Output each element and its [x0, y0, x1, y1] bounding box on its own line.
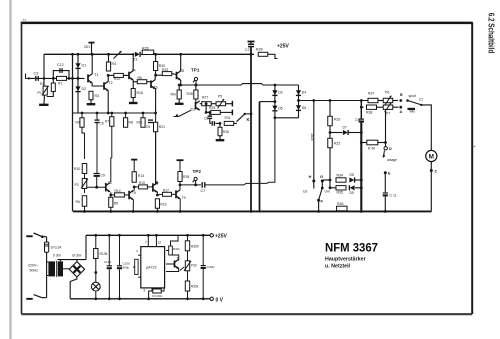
svg-text:+25V: +25V — [215, 234, 227, 240]
svg-text:D2: D2 — [82, 87, 87, 91]
svg-text:A: A — [400, 110, 403, 114]
svg-text:R12: R12 — [114, 77, 120, 81]
svg-text:D6: D6 — [302, 106, 306, 110]
svg-text:R27: R27 — [202, 96, 208, 100]
svg-text:R6: R6 — [76, 200, 80, 204]
svg-text:C1: C1 — [419, 98, 423, 102]
svg-text:Si 0,2A: Si 0,2A — [51, 246, 63, 250]
svg-text:D4: D4 — [302, 91, 306, 95]
svg-text:400µ: 400µ — [123, 266, 130, 270]
svg-text:Gl 30x: Gl 30x — [72, 254, 82, 258]
svg-text:P6: P6 — [385, 91, 389, 95]
svg-text:C12: C12 — [57, 63, 64, 67]
svg-text:C3: C3 — [34, 72, 39, 76]
svg-text:R35x: R35x — [191, 285, 199, 289]
svg-text:R26: R26 — [142, 47, 149, 51]
svg-text:R350: R350 — [191, 245, 199, 249]
svg-text:R1: R1 — [58, 82, 62, 86]
svg-text:+25V: +25V — [277, 44, 289, 50]
svg-text:0 V: 0 V — [216, 298, 224, 304]
svg-text:G: G — [320, 174, 323, 179]
svg-text:M: M — [429, 154, 434, 161]
svg-text:tr 30x: tr 30x — [53, 254, 61, 258]
svg-text:spult: spult — [409, 94, 416, 98]
svg-text:C101: C101 — [104, 260, 112, 264]
svg-text:T5: T5 — [132, 191, 136, 195]
svg-text:R34: R34 — [337, 174, 343, 178]
svg-text:C: C — [435, 170, 438, 174]
svg-text:50Hz: 50Hz — [30, 269, 39, 273]
svg-text:TP1: TP1 — [191, 68, 200, 73]
svg-text:P1: P1 — [38, 91, 42, 95]
svg-text:T10: T10 — [190, 108, 196, 112]
svg-text:D: D — [389, 147, 392, 151]
svg-text:2D1: 2D1 — [84, 45, 90, 49]
svg-text:(C36x: (C36x — [207, 265, 216, 269]
svg-text:R35: R35 — [337, 191, 343, 195]
svg-text:R4: R4 — [112, 62, 117, 66]
svg-text:C7: C7 — [201, 189, 206, 193]
svg-text:B: B — [400, 93, 403, 97]
svg-text:R10: R10 — [74, 167, 80, 171]
svg-text:D9: D9 — [350, 191, 354, 195]
svg-text:R14: R14 — [115, 189, 121, 193]
svg-text:7: 7 — [145, 241, 147, 245]
svg-text:µA723: µA723 — [146, 266, 156, 270]
svg-text:5: 5 — [144, 289, 146, 293]
svg-text:R5: R5 — [114, 202, 118, 206]
svg-text:NFM 3367: NFM 3367 — [325, 241, 378, 255]
svg-text:R13: R13 — [138, 174, 144, 178]
svg-text:R30x: R30x — [173, 247, 180, 251]
svg-text:12: 12 — [158, 241, 162, 245]
svg-text:C6: C6 — [100, 122, 104, 126]
svg-text:C9: C9 — [101, 174, 105, 178]
svg-text:D1: D1 — [82, 64, 87, 68]
svg-text:P2: P2 — [75, 183, 79, 187]
svg-text:R28: R28 — [187, 92, 193, 96]
svg-text:C8: C8 — [204, 117, 208, 121]
svg-text:R22: R22 — [334, 142, 340, 146]
svg-text:R7: R7 — [105, 120, 109, 124]
svg-text:R36: R36 — [337, 202, 343, 206]
svg-text:R17: R17 — [163, 188, 169, 192]
svg-text:220V~: 220V~ — [28, 264, 39, 268]
svg-text:R 40: R 40 — [368, 147, 375, 151]
svg-text:R6: R6 — [138, 76, 142, 80]
svg-text:R8: R8 — [129, 121, 133, 125]
svg-text:waage: waage — [387, 158, 397, 162]
svg-text:C2: C2 — [245, 48, 250, 52]
svg-text:D3: D3 — [278, 91, 282, 95]
svg-text:Hauptverstärker: Hauptverstärker — [325, 257, 366, 263]
svg-text:R37: R37 — [368, 92, 374, 96]
svg-text:R2: R2 — [40, 82, 45, 86]
svg-text:H: H — [309, 174, 312, 179]
svg-text:D8: D8 — [350, 173, 354, 177]
svg-text:C 11: C 11 — [390, 194, 397, 198]
svg-text:4s: 4s — [23, 18, 27, 22]
svg-text:T9: T9 — [182, 196, 186, 200]
svg-text:R105: R105 — [100, 252, 108, 256]
svg-text:R35: R35 — [183, 175, 189, 179]
svg-text:R21: R21 — [159, 125, 165, 129]
svg-text:2k2x: 2k2x — [310, 134, 314, 141]
svg-text:D5: D5 — [278, 107, 282, 111]
svg-text:T1: T1 — [94, 73, 98, 77]
svg-text:TP2: TP2 — [193, 169, 202, 174]
svg-text:u. Netzteil: u. Netzteil — [325, 264, 351, 270]
svg-text:R36: R36 — [223, 130, 229, 134]
svg-text:R39: R39 — [256, 48, 263, 52]
svg-text:P5: P5 — [218, 95, 222, 99]
svg-text:R9: R9 — [76, 121, 80, 125]
svg-text:R11: R11 — [137, 121, 143, 125]
svg-text:R31: R31 — [225, 116, 231, 120]
svg-text:R3: R3 — [95, 94, 100, 98]
svg-text:R15: R15 — [139, 181, 145, 185]
svg-text:R32: R32 — [162, 68, 168, 72]
svg-text:Wie: Wie — [410, 110, 416, 114]
svg-text:6.2 Schaltbild: 6.2 Schaltbild — [487, 13, 497, 54]
svg-text:D7: D7 — [343, 126, 347, 130]
svg-text:Us: Us — [303, 190, 307, 194]
svg-text:R32: R32 — [334, 118, 340, 122]
svg-text:R19: R19 — [160, 203, 166, 207]
svg-text:R38: R38 — [366, 111, 372, 115]
svg-text:P7: P7 — [386, 112, 390, 116]
svg-text:RN: RN — [171, 93, 177, 97]
svg-text:K: K — [247, 117, 250, 122]
svg-text:R16: R16 — [137, 91, 143, 95]
svg-text:Um: Um — [325, 190, 330, 194]
svg-text:C5: C5 — [146, 125, 150, 129]
svg-text:P30: P30 — [191, 264, 197, 268]
svg-text:R29: R29 — [209, 106, 215, 110]
svg-text:T2: T2 — [109, 81, 113, 85]
svg-text:R,C30x: R,C30x — [153, 294, 163, 298]
